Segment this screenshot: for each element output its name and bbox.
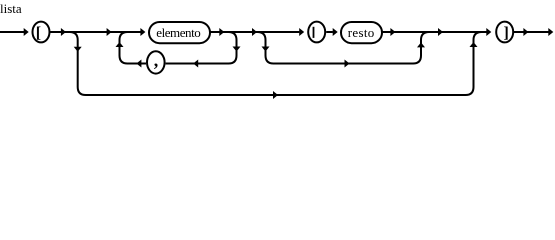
svg-text:]: ] xyxy=(504,25,509,42)
wire comma loop branch down xyxy=(166,32,237,64)
wire between | and resto xyxy=(326,31,333,33)
arrowhead left on comma loop after comma xyxy=(136,60,141,68)
arrowhead before | xyxy=(299,28,304,36)
svg-text:elemento: elemento xyxy=(156,25,201,40)
arrowhead before ] xyxy=(486,28,491,36)
arrowhead down on comma loop branch xyxy=(233,47,241,52)
arrowhead right on resto bypass line xyxy=(345,60,350,68)
arrowhead right on outer bypass line xyxy=(273,91,278,99)
arrowhead after elemento xyxy=(219,28,224,36)
terminal elemento xyxy=(149,22,210,43)
svg-text:,: , xyxy=(154,50,159,70)
wire after [ to elemento xyxy=(50,31,140,33)
arrowhead up on outer bypass return xyxy=(470,42,478,47)
arrowhead after resto bypass join xyxy=(438,28,443,36)
arrowhead before resto xyxy=(333,28,338,36)
arrowhead up on comma loop return xyxy=(116,42,124,47)
arrowhead before resto bypass branch xyxy=(252,28,257,36)
arrowhead after ] xyxy=(523,28,528,36)
wire exit after ] xyxy=(514,31,549,33)
terminal | xyxy=(308,22,325,43)
arrowhead before [ xyxy=(24,28,29,36)
wire after elemento to | xyxy=(211,31,300,33)
wire resto bypass xyxy=(258,32,430,64)
arrowhead before comma loop join xyxy=(107,28,112,36)
terminal resto xyxy=(341,22,382,43)
terminal ] xyxy=(496,22,513,43)
wire main entry xyxy=(0,31,24,33)
terminal comma separator xyxy=(147,50,165,73)
terminal [ xyxy=(33,22,50,43)
svg-text:[: [ xyxy=(36,25,41,42)
svg-text:lista: lista xyxy=(0,1,22,16)
arrowhead down on outer bypass branch xyxy=(74,47,82,52)
arrowhead after [ xyxy=(61,28,66,36)
arrowhead before elemento xyxy=(140,28,145,36)
node label lista xyxy=(0,1,22,16)
arrowhead left on comma loop before comma xyxy=(193,60,198,68)
wire after resto to ] xyxy=(383,31,487,33)
arrowhead down on resto bypass branch xyxy=(262,47,270,52)
svg-text:resto: resto xyxy=(348,25,375,40)
wire comma loop return up xyxy=(120,32,147,64)
wire outer bypass xyxy=(70,32,482,95)
arrowhead after resto xyxy=(390,28,395,36)
arrowhead up on resto bypass return xyxy=(417,42,425,47)
arrowhead exit end xyxy=(548,28,553,36)
